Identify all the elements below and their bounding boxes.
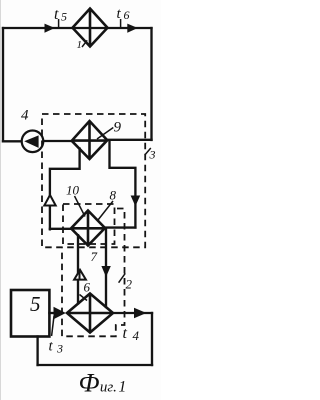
wire riser into source 5 bottom [36,337,38,366]
heat exchanger 9 internal horizontal [72,139,108,142]
svg-text:t: t [123,325,128,342]
heat exchanger 7 internal horizontal [71,227,105,230]
dashed boundary 3 (large dashed box) [42,114,145,247]
wire left horizontal into exchanger 7 [50,228,71,230]
wire right downcomer from exchanger 9 to exchanger 7 line [110,142,136,227]
tick for t5 [58,19,60,28]
wire right vertical [150,28,152,140]
svg-text:4: 4 [133,328,140,343]
svg-text:t: t [49,339,54,355]
leader for label 9 [97,128,113,140]
wire through bottom open triangle [79,272,81,281]
svg-text:5: 5 [30,292,41,316]
heat exchanger 6 internal horizontal [67,312,113,315]
heat exchanger 9 (diamond with cross) [72,121,108,159]
dashed boundary 2 (around exchanger 6) [62,209,125,337]
svg-text:t: t [54,6,59,23]
wire bottom return line [38,364,152,366]
leader for label 6 [80,295,88,301]
svg-text:5: 5 [61,10,67,24]
svg-text:2: 2 [126,277,133,292]
arrow down on right downcomer [131,196,141,207]
wire right return vertical [151,313,153,365]
svg-text:Фиг.1: Фиг.1 [79,369,127,398]
wire exchanger 6 outlet to right [113,312,152,314]
source box 5 [11,290,49,337]
svg-text:3: 3 [149,148,156,162]
svg-text:4: 4 [21,108,29,124]
open flow triangle on left pipe above exchanger 6 (points up) [74,270,86,280]
wire left vertical [2,28,4,141]
svg-text:10: 10 [66,183,80,198]
pump 4 (circle with filled left triangle) [22,131,44,153]
svg-text:9: 9 [114,120,122,136]
scan edge left [0,0,1,400]
heat exchanger 6 (diamond with cross) [67,294,113,333]
heat exchanger 1 (diamond with cross) [73,9,108,47]
svg-text:6: 6 [124,8,130,22]
wire pump to heat exchanger 9 [43,140,72,142]
wire source 5 outlet [49,312,56,314]
leader for label 1 [82,40,87,47]
open flow triangle on left riser (points up) [44,195,55,206]
leader for label 2 [119,273,126,282]
svg-text:3: 3 [56,342,63,356]
arrow t4 (filled, right) [134,308,146,319]
wire left downcomer from exchanger 9 to node at exchanger 7 line [50,149,80,230]
svg-text:6: 6 [84,280,91,295]
leader for label 3 [145,148,151,155]
svg-text:1: 1 [77,39,83,51]
wire left pipe exchanger 7 down to exchanger 6 [77,235,79,303]
arrow t6 (filled, right) [127,24,138,33]
leader for label 10 [75,196,86,217]
dashed boundary around exchanger 7 [63,204,115,244]
wire right pipe exchanger 7 down to exchanger 6 [105,229,107,308]
wire pump inlet [3,140,22,142]
svg-text:8: 8 [110,188,117,203]
wire heat exchanger 9 right to right vertical [107,139,152,141]
tick for t6 [120,19,122,28]
tick for t3 [52,316,54,336]
wire top horizontal line [3,27,152,29]
leader for label 8 [98,201,113,220]
svg-text:7: 7 [91,249,98,264]
heat exchanger 7 (diamond with cross) [71,211,105,246]
arrow t5 (filled, right) [45,24,55,33]
arrow down on right pipe above exchanger 6 [101,266,110,277]
arrow from source 5 into exchanger 6 [54,307,66,319]
wire right horizontal into exchanger 7 [105,226,135,228]
